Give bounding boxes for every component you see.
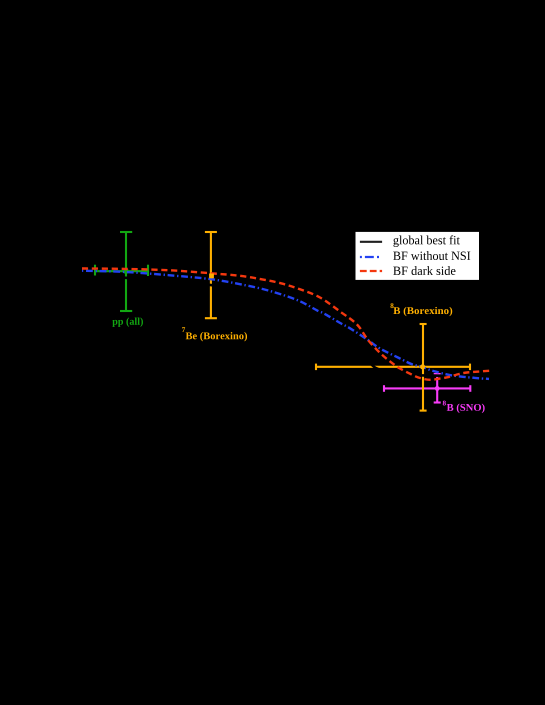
label superscript 8 of 8B SNO (magenta) (443, 401, 446, 406)
legend text "BF without NSI" (393, 251, 470, 260)
label superscript 7 of 7Be (orange) (182, 327, 185, 332)
label superscript 8 of 8B Borexino (orange) (390, 303, 393, 308)
legend text "global best fit" (393, 235, 459, 247)
label "B (SNO)" (magenta) (447, 404, 485, 413)
8B (SNO) data point: magenta error bars (x and y) (384, 374, 470, 403)
8B (SNO) magenta circle marker (435, 386, 440, 391)
7Be (Borexino) orange square marker (209, 274, 214, 279)
legend sample line: BF without NSI (blue dash-dot) (360, 256, 382, 258)
label "B (Borexino)" (orange) (393, 307, 452, 316)
legend sample line: BF dark side (red dashed) (360, 270, 382, 272)
label "pp (all)" (green) (112, 318, 143, 327)
7Be (Borexino) data point: orange vertical error bar (205, 232, 217, 318)
BF without NSI curve (blue dash-dot) (82, 271, 489, 379)
8B (Borexino) orange circle marker (420, 364, 425, 369)
BF dark side curve (red dashed) (82, 269, 491, 380)
legend box (355, 231, 480, 280)
pp (all) green square marker (124, 269, 128, 273)
BF dark side curve: faded leading dash fragment (82, 267, 88, 269)
8B (Borexino) data point: orange error bars (x and y) (316, 324, 470, 411)
label "Be (Borexino)" (orange) (186, 332, 247, 341)
global best fit curve (black, invisible on black background; carves gaps in bars) (82, 277, 489, 377)
pp (all) data point: green error bars (x and y) (95, 232, 148, 311)
legend text "BF dark side" (393, 266, 455, 275)
legend sample line: global best fit (black solid) (360, 241, 382, 243)
